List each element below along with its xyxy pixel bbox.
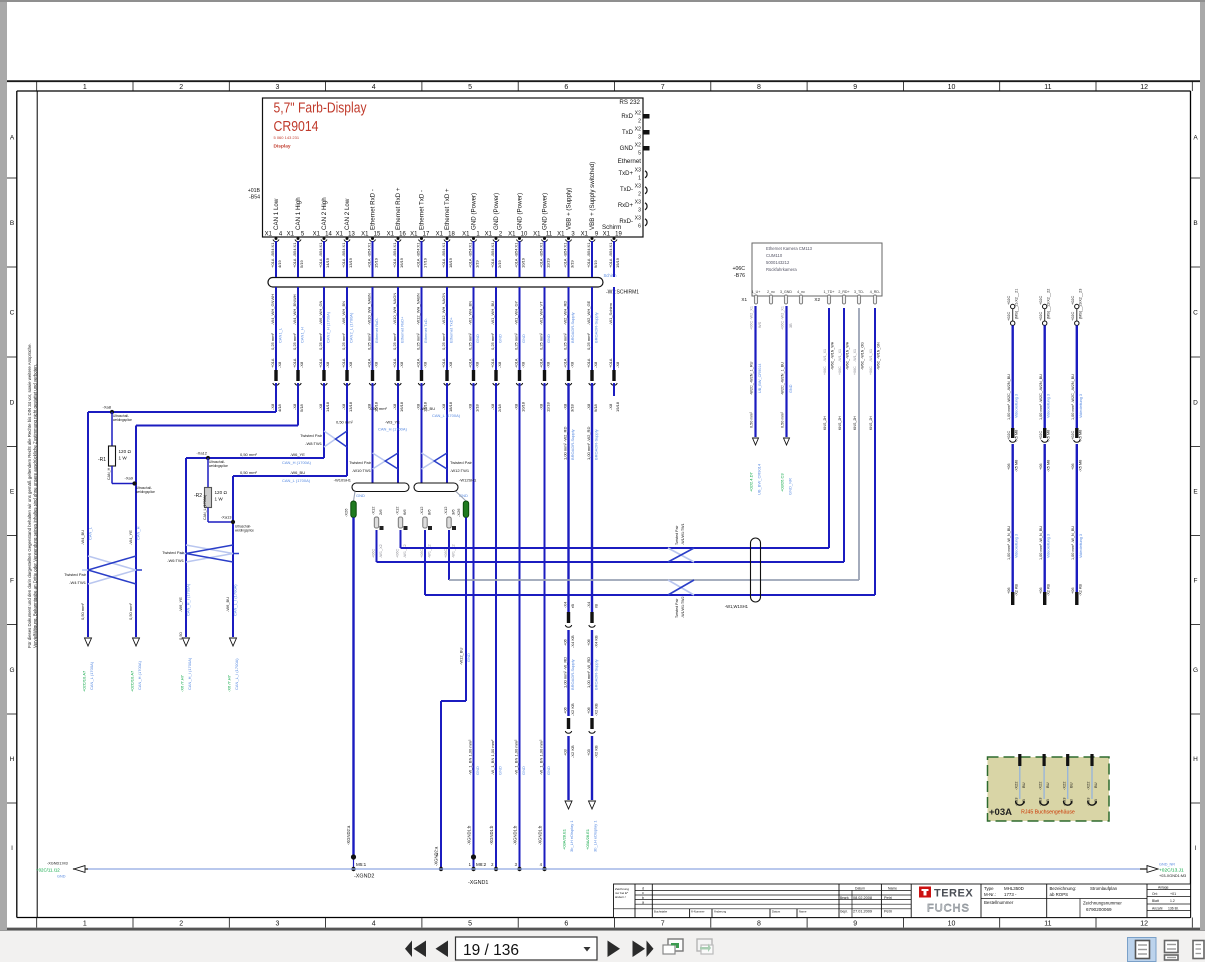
svg-text:+06: +06 [562,706,567,714]
svg-text:X1: X1 [603,232,611,238]
svg-text:TxD: TxD [622,130,634,136]
svg-text:D: D [1193,399,1198,406]
svg-text:+06C: +06C [853,366,857,375]
svg-text:Videoleitung 3: Videoleitung 3 [1047,394,1051,418]
svg-text:-B54:X1: -B54:X1 [586,242,591,257]
svg-text:-W6_YE: -W6_YE [290,452,305,457]
svg-text:+06C -W2_X1: +06C -W2_X1 [750,306,754,330]
svg-text:5/19: 5/19 [299,259,304,268]
svg-text:-X8: -X8 [270,403,275,410]
svg-text:Schirm: Schirm [604,273,618,278]
svg-text:Anzahl: Anzahl [1152,907,1163,911]
svg-text:+01A: +01A [318,358,323,368]
svg-text:+01A: +01A [392,258,397,268]
svg-text:-X12: -X12 [419,506,424,515]
svg-text:9/19: 9/19 [593,259,598,268]
svg-text:+01A: +01A [490,258,495,268]
svg-text:-W1/W1:TW1: -W1/W1:TW1 [681,523,685,545]
svg-text:0,50 mm²: 0,50 mm² [750,411,754,428]
svg-text:3: 3 [638,208,641,214]
svg-text:c: c [642,891,644,895]
svg-text:-W1_X2: -W1_X2 [403,544,407,558]
svg-text:120 Ω: 120 Ω [215,490,228,495]
svg-text:-B54: -B54 [249,195,260,201]
page layout icons right [1128,938,1157,962]
svg-text:-B54:X1: -B54:X1 [270,242,275,257]
svg-text:KNS_2H: KNS_2H [869,416,873,430]
svg-text:+01A: +01A [441,358,446,368]
svg-text:3b_LH eDisplay 1: 3b_LH eDisplay 1 [569,820,574,852]
svg-text:BU: BU [1045,782,1050,788]
svg-text:14/19: 14/19 [325,257,330,268]
svg-text:Ethernet TxD+: Ethernet TxD+ [449,317,454,343]
svg-text:8: 8 [757,921,761,928]
copyright note (vertical) [27,343,38,648]
ground terminal -XGND1 [467,825,547,886]
svg-text:+01A: +01A [415,358,420,368]
svg-text:UB_BW_CR9014: UB_BW_CR9014 [757,463,762,495]
wire shield GND right (X26) to XGND2 [434,518,472,870]
svg-text:GND (Power): GND (Power) [493,193,500,230]
svg-text:Ethernet TxD -: Ethernet TxD - [419,190,426,230]
svg-text:+02C/10.A7: +02C/10.A7 [130,670,135,692]
svg-text:(MS)__22: (MS)__22 [1047,302,1051,319]
svg-text:5/18: 5/18 [299,403,304,412]
svg-text:+01A: +01A [467,258,472,268]
TEREX FUCHS logo [919,887,973,915]
svg-text:11: 11 [546,232,553,238]
svg-text:1: 1 [83,921,87,928]
svg-text:3: 3 [275,84,279,91]
svg-text:CAN_L (1700A): CAN_L (1700A) [432,413,461,418]
svg-text:Twisted Pair: Twisted Pair [300,433,322,438]
svg-text:+02C: +02C [1071,296,1075,305]
svg-text:6: 6 [564,921,568,928]
svg-text:-X4: -X4 [562,601,567,608]
svg-text:+06: +06 [1071,464,1075,470]
resistor R1 120 Ohm [98,412,136,484]
svg-text:GND (Power): GND (Power) [517,193,524,230]
svg-text:-XGND1:b: -XGND1:b [467,825,472,845]
svg-text:BROADR-Supply: BROADR-Supply [570,659,575,690]
svg-text:5: 5 [468,84,472,91]
svg-text:RJ45 Buchsengehäuse: RJ45 Buchsengehäuse [1021,810,1075,816]
svg-text:Bearb.: Bearb. [840,896,850,900]
svg-text:3: 3 [638,135,641,141]
svg-text:-W4_WH_BNWH: -W4_WH_BNWH [292,294,297,325]
svg-text:+06: +06 [1039,464,1043,470]
svg-text:-X8: -X8 [423,361,428,368]
svg-text:-X8: -X8 [399,361,404,368]
svg-text:19/18: 19/18 [615,401,620,412]
svg-text:1: 1 [469,862,472,867]
svg-text:4: 4 [540,862,543,867]
svg-text:10: 10 [521,232,528,238]
svg-text:Stromlaufplan: Stromlaufplan [1090,886,1118,891]
svg-text:-W4_WH_GNWH: -W4_WH_GNWH [270,294,275,325]
svg-text:+06C: +06C [838,366,842,375]
svg-text:2: 2 [638,119,641,125]
svg-text:CAN_H: CAN_H [136,526,141,540]
svg-text:-X2 KB: -X2 KB [1015,584,1019,596]
svg-text:-W1,W1SH1: -W1,W1SH1 [725,604,749,609]
svg-text:16/18: 16/18 [399,401,404,412]
svg-text:1/19: 1/19 [475,259,480,268]
svg-text:CAN 2 Low: CAN 2 Low [344,198,351,230]
svg-text:+01A: +01A [538,258,543,268]
svg-text:-X5 M8: -X5 M8 [1079,430,1083,442]
svg-text:-W6C_-W1N_GN: -W6C_-W1N_GN [877,342,881,370]
svg-text:+01A: +01A [608,358,613,368]
svg-text:1,00 mm² -W_RD: 1,00 mm² -W_RD [586,657,591,688]
svg-text:19/19: 19/19 [615,257,620,268]
node Xa12 splice [196,451,228,468]
svg-text:CAN_H (1700A): CAN_H (1700A) [378,427,408,432]
svg-text:KNS_2H: KNS_2H [838,416,842,430]
svg-text:-W1_X2: -W1_X2 [379,544,383,558]
svg-text:1 W: 1 W [119,456,128,461]
svg-text:11/18: 11/18 [546,402,551,412]
svg-text:Twisted Pair: Twisted Pair [675,525,679,545]
wire video signal 1 (-X2_21) [1007,289,1019,605]
svg-text:120 Ω: 120 Ω [119,449,132,454]
svg-text:08.02.2008: 08.02.2008 [853,896,872,900]
svg-text:UB_BW_CR9014: UB_BW_CR9014 [758,363,762,393]
svg-text:6: 6 [564,84,568,91]
svg-text:VBB + (Supply switched): VBB + (Supply switched) [589,162,596,230]
svg-text:-X2__22: -X2__22 [1047,289,1051,303]
svg-text:11: 11 [1044,84,1051,91]
svg-text:-W2_WH_GE: -W2_WH_GE [586,300,591,325]
svg-text:VBB + (Supply): VBB + (Supply) [566,188,573,230]
svg-text:BROADR-Supply: BROADR-Supply [570,312,575,343]
svg-text:-X26: -X26 [456,508,461,517]
svg-text:Schirm: Schirm [602,224,621,231]
svg-text:1,00 mm² -W_N_BU: 1,00 mm² -W_N_BU [1007,526,1011,560]
svg-text:Ethernet: Ethernet [618,158,642,165]
svg-text:-X4: -X4 [586,601,591,608]
svg-text:-W6_BU: -W6_BU [290,470,305,475]
svg-text:+03A/28.E1: +03A/28.E1 [562,828,567,850]
svg-text:2/19: 2/19 [497,259,502,268]
svg-text:-W12SH1: -W12SH1 [459,478,477,483]
connector -X22/-X33 pin 1 [1013,754,1025,806]
svg-text:Twisted Pair: Twisted Pair [450,460,472,465]
svg-text:CAN2_H (1700A): CAN2_H (1700A) [326,311,331,343]
svg-text:+01A: +01A [562,358,567,368]
svg-text:+06C: +06C [395,549,399,558]
svg-text:+06: +06 [586,638,591,646]
svg-text:rB: rB [593,604,598,608]
svg-text:X2: X2 [635,143,641,149]
svg-text:-X8: -X8 [521,361,526,368]
svg-text:-X4 KB: -X4 KB [593,635,598,648]
svg-text:0,25 mm²: 0,25 mm² [366,332,371,350]
svg-text:-B54:X1: -B54:X1 [538,242,543,257]
svg-text:0,25 mm²: 0,25 mm² [392,332,397,350]
svg-text:Twisted Pair: Twisted Pair [349,460,371,465]
svg-text:3b_LH eDisplay 1: 3b_LH eDisplay 1 [593,820,598,852]
svg-text:18/19: 18/19 [448,257,453,268]
svg-text:GND (Power): GND (Power) [542,193,549,230]
svg-text:1: 1 [638,176,641,182]
svg-text:-W1_X1: -W1_X1 [853,349,857,362]
svg-text:-X12: -X12 [443,506,448,515]
svg-text:-X8: -X8 [392,403,397,410]
svg-text:CAN_H: CAN_H [107,467,111,480]
svg-text:+02C: +02C [1007,312,1011,321]
svg-text:-W1_X1: -W1_X1 [823,349,827,362]
wire CAN 1 Low (X1:4) [270,241,283,412]
svg-text:KNS_2H: KNS_2H [823,416,827,430]
svg-text:-W1_WH_BN: -W1_WH_BN [467,301,472,325]
svg-text:-X8: -X8 [277,361,282,368]
svg-text:Petri: Petri [884,910,892,914]
svg-text:15/19: 15/19 [374,257,379,268]
svg-text:-X8: -X8 [325,361,330,368]
svg-text:+03-XGND1:M3: +03-XGND1:M3 [1159,874,1186,878]
svg-text:11: 11 [1044,921,1051,928]
svg-text:+03A/28.E1: +03A/28.E1 [585,828,590,850]
svg-text:1: 1 [83,84,87,91]
svg-text:+02C/10.A7: +02C/10.A7 [82,670,87,692]
svg-text:0,50 mm²: 0,50 mm² [80,602,85,620]
svg-text:4: 4 [372,84,376,91]
svg-text:CAN 2 High: CAN 2 High [321,197,328,230]
svg-text:-W_1_BN 1,00 mm²: -W_1_BN 1,00 mm² [513,739,518,775]
svg-text:-X8: -X8 [318,403,323,410]
svg-text:+02C: +02C [1007,296,1011,305]
svg-text:Display: Display [274,144,291,150]
svg-text:2/6: 2/6 [378,509,383,515]
svg-text:Rückfahrkamera: Rückfahrkamera [766,267,797,272]
svg-text:Videoleitung 3: Videoleitung 3 [1047,534,1051,558]
wire Schirm (X1:19) [608,241,620,412]
shield -W1:W1SH1 oval vertical [725,538,761,609]
svg-text:H: H [1193,756,1198,763]
svg-text:Videoleitung 3: Videoleitung 3 [1079,394,1083,418]
RS232 port X2 pins [619,99,649,157]
svg-text:+01B: +01B [248,188,261,194]
svg-text:5: 5 [638,151,641,157]
svg-text:0,25 mm²: 0,25 mm² [513,332,518,350]
svg-text:GND: GND [475,334,480,343]
svg-text:-XGND1: -XGND1 [468,880,488,886]
svg-text:1,00 mm² -W2C_-W2N_BU: 1,00 mm² -W2C_-W2N_BU [1071,374,1075,420]
svg-text:RxD+: RxD+ [618,203,634,209]
svg-text:5: 5 [468,921,472,928]
svg-text:b: b [642,896,644,900]
svg-text:7: 7 [661,921,665,928]
svg-text:Für dieses Dokument und den da: Für dieses Dokument und den darin darges… [27,343,32,648]
svg-text:-X2 KB: -X2 KB [593,745,598,758]
camera X2 wire labels [823,341,881,430]
svg-text:GND: GND [789,384,793,393]
svg-text:-B54:X1: -B54:X1 [366,242,371,257]
svg-text:2: 2 [179,84,183,91]
svg-text:-Xa9: -Xa9 [125,476,134,481]
device tag -B54 [248,188,261,201]
wire CAN1 bus pair to left [80,406,461,637]
title block [614,884,1191,918]
svg-text:+01A: +01A [586,258,591,268]
svg-text:-X8: -X8 [441,403,446,410]
svg-text:weldingsplice: weldingsplice [113,418,132,422]
svg-text:-X2 KB: -X2 KB [570,745,575,758]
svg-text:-X22: -X22 [1061,781,1066,790]
svg-text:+02C: +02C [1039,296,1043,305]
connector -X12 pin 3/6 [443,506,456,558]
svg-text:BU: BU [1021,782,1026,788]
svg-text:+06: +06 [1007,464,1011,470]
display unit U1 CR9014 (-B54) [263,98,644,242]
svg-text:GND: GND [620,146,634,152]
svg-text:RS 232: RS 232 [619,99,640,106]
svg-text:-X5 M8: -X5 M8 [1047,460,1051,472]
svg-text:-X8: -X8 [615,361,620,368]
svg-text:X3: X3 [635,168,641,174]
svg-text:X1: X1 [508,232,516,238]
svg-text:GND: GND [521,766,526,775]
svg-text:-B54:X1: -B54:X1 [341,242,346,257]
svg-text:-XGND2: -XGND2 [354,874,374,880]
wire Ethernet TxD+ (X1:18) [441,241,454,483]
svg-text:7: 7 [661,84,665,91]
svg-text:15: 15 [374,232,381,238]
svg-text:3_TD-: 3_TD- [854,290,865,294]
shield -W12:SH1 oval [414,478,477,502]
svg-text:X2: X2 [635,111,641,117]
svg-text:+01: +01 [1170,892,1176,896]
svg-text:GND: GND [521,334,526,343]
svg-text:1,00 mm² -W2C_-W2N_BU: 1,00 mm² -W2C_-W2N_BU [1039,374,1043,420]
svg-text:4_RD-: 4_RD- [870,290,881,294]
svg-text:MHL350D: MHL350D [1004,886,1024,891]
connector -X12 pin 6/6 [394,506,407,558]
svg-text:GND: GND [466,653,471,662]
svg-text:4/18: 4/18 [277,403,282,412]
svg-text:16/19: 16/19 [399,257,404,268]
svg-text:X1: X1 [387,232,395,238]
wire GND power 3 (X1:10) [513,241,526,869]
svg-text:1_TD+: 1_TD+ [824,290,835,294]
svg-text:GND_NR: GND_NR [1159,863,1175,867]
svg-text:-W6_BU: -W6_BU [225,597,230,612]
svg-text:1,00 mm² -W_N_BU: 1,00 mm² -W_N_BU [1071,526,1075,560]
wire ethernet RxD- to camera RD+ [377,308,845,562]
svg-text:CAN 1 High: CAN 1 High [295,197,302,230]
svg-text:4_nc: 4_nc [797,290,805,294]
svg-text:GND: GND [57,875,66,879]
connector -X22/-X33 pin 2 [1038,754,1050,806]
svg-text:Ä-Nummer: Ä-Nummer [691,910,705,914]
twisted pair -W8:TW1 (CAN2) [300,431,347,447]
svg-text:0,50 mm²: 0,50 mm² [240,452,258,457]
svg-text:0,25 mm²: 0,25 mm² [490,332,495,350]
svg-text:10/18: 10/18 [521,401,526,412]
svg-text:KNS_2H: KNS_2H [853,416,857,430]
svg-text:BROADR-Supply: BROADR-Supply [570,429,575,460]
svg-text:0,25 mm²: 0,25 mm² [341,332,346,350]
twisted pair -W10:TW1 (Ethernet Rx) [349,453,398,473]
svg-text:-W1_WH_BU: -W1_WH_BU [490,301,495,325]
svg-text:+03: +03 [562,748,567,756]
wire video signal 3 (-X2_23) [1071,289,1083,605]
svg-text:-W6:TW1: -W6:TW1 [167,558,185,563]
svg-text:-W12_BU: -W12_BU [459,648,464,665]
svg-text:ab ROPS: ab ROPS [1050,892,1069,897]
svg-text:6790200069: 6790200069 [1086,907,1112,912]
svg-text:-XGND1:M3: -XGND1:M3 [47,862,68,866]
svg-text:-W1_Schirm: -W1_Schirm [608,302,613,325]
svg-text:0,25 mm²: 0,25 mm² [467,332,472,350]
wire VBB supply switched (X1:9) [586,241,599,612]
svg-text:Anlage: Anlage [1158,886,1169,890]
wire GND power 1 (X1:1) [467,241,480,869]
svg-text:1/18: 1/18 [475,403,480,412]
svg-text:+01A: +01A [441,258,446,268]
svg-text:3B: 3B [789,323,793,328]
svg-text:BROADR-Supply: BROADR-Supply [594,659,599,690]
svg-text:CAN_L: CAN_L [88,526,93,540]
svg-text:GND: GND [356,493,365,498]
svg-text:-W10:TW1: -W10:TW1 [352,468,372,473]
svg-text:X1: X1 [741,297,747,302]
svg-text:Twisted Pair: Twisted Pair [162,550,184,555]
svg-text:0,25 mm²: 0,25 mm² [270,332,275,350]
svg-text:-X6 /7.H7: -X6 /7.H7 [227,674,232,692]
svg-text:-X8: -X8 [490,403,495,410]
svg-text:(MS)__23: (MS)__23 [1079,302,1083,319]
svg-text:9: 9 [853,84,857,91]
svg-text:weldingsplice: weldingsplice [235,528,254,532]
svg-text:d: d [642,887,644,891]
svg-text:-X26: -X26 [344,508,349,517]
svg-text:+01A: +01A [318,258,323,268]
svg-text:Ethernet RxD -: Ethernet RxD - [370,189,377,230]
svg-text:C: C [10,310,15,317]
svg-text:A: A [10,134,15,141]
svg-text:+01A: +01A [270,358,275,368]
svg-text:14: 14 [325,232,332,238]
svg-text:F: F [10,578,14,585]
svg-text:-B54:X1: -B54:X1 [513,242,518,257]
svg-text:-W4_YE: -W4_YE [128,530,133,545]
svg-text:TxD+: TxD+ [618,171,633,177]
svg-text:5,7" Farb-Display: 5,7" Farb-Display [274,101,368,117]
svg-text:-X8: -X8 [513,403,518,410]
svg-text:CUM110: CUM110 [766,253,783,258]
wire CAN 2 Low (X1:13) [341,241,354,476]
svg-text:FUCHS: FUCHS [927,903,970,915]
svg-text:-X8: -X8 [341,403,346,410]
svg-text:-X8: -X8 [593,361,598,368]
svg-text:+01A: +01A [292,258,297,268]
svg-text:-B54:X1: -B54:X1 [467,242,472,257]
svg-text:+01A: +01A [392,358,397,368]
svg-text:I: I [1195,845,1197,852]
svg-text:0,25 mm²: 0,25 mm² [318,332,323,350]
svg-text:-X8: -X8 [299,361,304,368]
node Xa9 splice [125,476,156,494]
svg-text:+01A: +01A [513,258,518,268]
svg-text:Änderung: Änderung [714,910,727,914]
svg-text:Gepr.: Gepr. [840,910,848,914]
svg-text:-X2__23: -X2__23 [1079,289,1083,303]
svg-text:Vervielfältigung, Bekanntgabe: Vervielfältigung, Bekanntgabe an Dritte … [33,364,38,648]
wire VBB switched lower run [585,601,598,852]
svg-text:6/6: 6/6 [402,509,407,515]
